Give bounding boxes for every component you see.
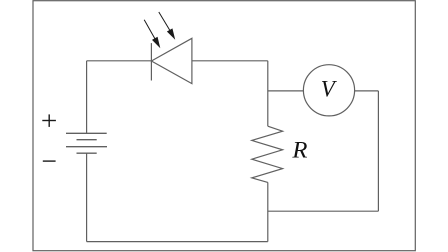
bottom rail wire	[87, 241, 268, 243]
svg-text:R: R	[291, 138, 307, 163]
battery plate long lower	[66, 146, 107, 148]
voltmeter label V	[321, 76, 338, 101]
wire top-right corner down to resistor top	[267, 61, 269, 126]
battery plate long top	[66, 132, 107, 134]
light arrow 1 into photodiode	[144, 20, 159, 47]
battery plate short	[77, 139, 97, 141]
photodiode cathode bar	[150, 43, 152, 80]
wire battery top to top-left corner	[86, 61, 88, 134]
wire voltmeter branch bottom to resistor node	[268, 210, 379, 212]
wire resistor bottom down to bottom rail	[267, 182, 269, 241]
battery plus terminal label +	[42, 114, 56, 127]
wire photodiode to top-right corner	[192, 60, 268, 62]
wire battery bottom down to bottom rail	[86, 153, 88, 241]
wire top-left corner to photodiode anode	[87, 60, 152, 62]
photodiode triangle	[151, 38, 192, 83]
wire voltmeter right	[355, 90, 379, 92]
resistor R zigzag	[252, 126, 283, 182]
resistor value label R	[291, 138, 307, 163]
battery plate short bottom	[77, 152, 97, 154]
battery minus terminal label -	[43, 160, 56, 162]
voltmeter V circle	[303, 65, 354, 116]
wire node to voltmeter left	[268, 90, 304, 92]
wire voltmeter branch down	[377, 91, 379, 211]
light arrow 2 into photodiode	[159, 12, 175, 38]
